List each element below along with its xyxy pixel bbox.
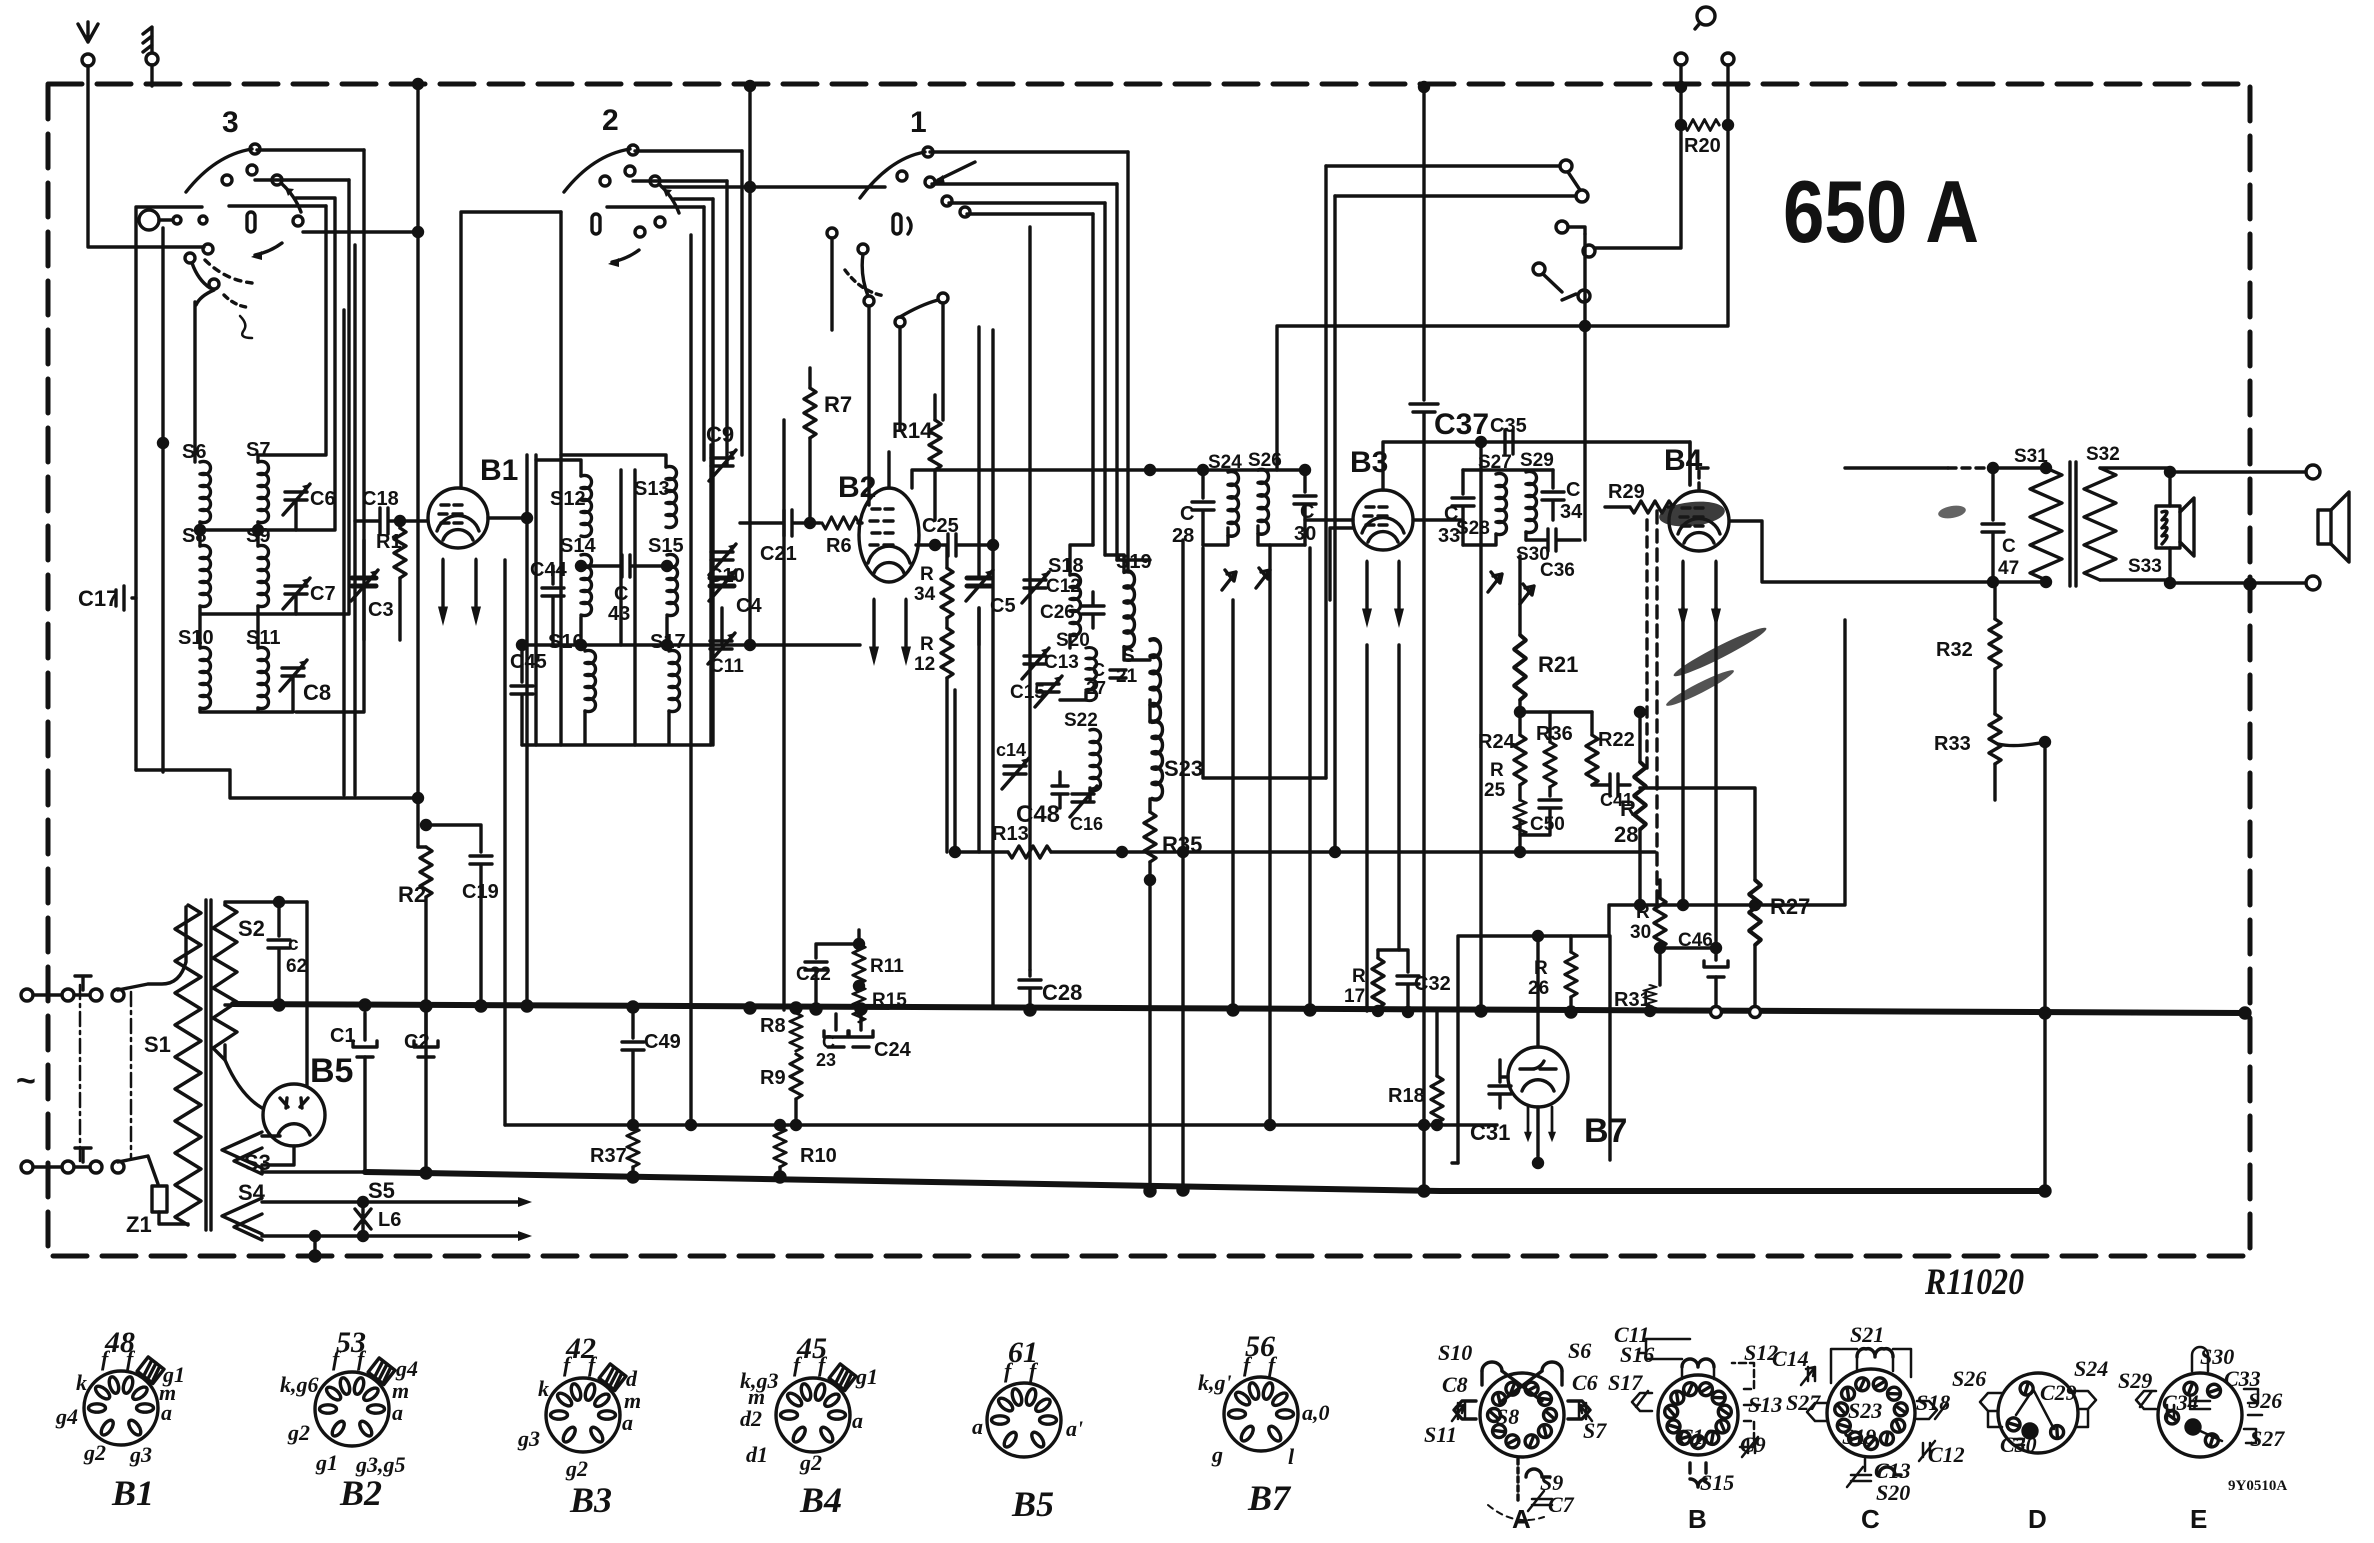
svg-text:k,g': k,g' [1198, 1370, 1232, 1395]
variable capacitor C5 [977, 608, 980, 645]
svg-text:S27: S27 [1786, 1390, 1821, 1415]
svg-text:C8: C8 [303, 680, 331, 705]
svg-text:S29: S29 [2118, 1368, 2152, 1393]
variable capacitor C3 [362, 540, 365, 576]
switch 1 contacts [923, 147, 933, 157]
svg-text:28: 28 [1614, 822, 1638, 847]
wire long vertical 355 [353, 245, 356, 795]
wire R row bottom [1520, 820, 1550, 852]
wire rail r1 [258, 206, 326, 462]
svg-text:S11: S11 [1424, 1422, 1457, 1447]
tube B3 filament arrows [1362, 562, 1372, 628]
node [254, 526, 263, 535]
wire mid 905 line [1609, 620, 1845, 936]
svg-text:S16: S16 [1620, 1342, 1654, 1367]
wire B3 left lower stub [1330, 528, 1353, 600]
svg-text:S10: S10 [178, 627, 214, 649]
speaker cone small [2180, 498, 2194, 556]
svg-text:12: 12 [914, 654, 935, 675]
svg-text:30: 30 [1630, 922, 1651, 943]
tube B2 [859, 488, 919, 582]
svg-text:34: 34 [914, 584, 936, 605]
wire B3 top line [1383, 442, 1690, 490]
terminal [2306, 465, 2320, 479]
wire long vertical 418 [416, 84, 419, 847]
socket diagram B [1632, 1339, 1760, 1487]
svg-text:S13: S13 [1748, 1392, 1782, 1417]
svg-text:g1: g1 [315, 1450, 338, 1475]
node heavy2 [421, 1168, 431, 1178]
switch 1b contacts [827, 228, 837, 238]
wire switch2 rails [607, 151, 742, 207]
svg-text:S33: S33 [2128, 556, 2162, 577]
svg-text:S21: S21 [1850, 1322, 1884, 1347]
wire row3 bottom [200, 676, 293, 712]
svg-text:3: 3 [222, 106, 239, 139]
svg-text:B3: B3 [569, 1480, 612, 1520]
svg-text:S20: S20 [1876, 1480, 1910, 1505]
switch 2 blade [660, 185, 679, 213]
transformer core [206, 900, 211, 1230]
svg-text:C21: C21 [760, 543, 797, 565]
wire block3 left rail bottom [161, 770, 164, 772]
svg-text:R14: R14 [892, 418, 933, 443]
tube B5 rectifier [263, 1084, 325, 1146]
core adjust arrows IF2 [1488, 572, 1502, 592]
svg-text:S24: S24 [2074, 1356, 2108, 1381]
svg-text:l: l [1288, 1444, 1295, 1469]
svg-text:B1: B1 [111, 1473, 154, 1513]
svg-text:21: 21 [1116, 666, 1138, 687]
svg-text:R8: R8 [760, 1015, 786, 1037]
svg-text:g2: g2 [799, 1450, 822, 1475]
switch 1 rails [930, 152, 1128, 214]
svg-text:C4: C4 [736, 595, 762, 617]
ink smudge [1658, 499, 1726, 530]
node [518, 641, 527, 650]
svg-text:C17: C17 [78, 586, 118, 611]
node [1516, 848, 1525, 857]
wire wave rail a [1324, 166, 1327, 778]
svg-text:C26: C26 [1040, 602, 1075, 623]
node j1 [159, 439, 168, 448]
svg-text:17: 17 [1344, 986, 1365, 1007]
svg-text:k: k [76, 1370, 87, 1395]
tube B1 filament arrows [438, 560, 448, 626]
node [2166, 579, 2175, 588]
mains terminals row2 [21, 1161, 33, 1173]
svg-text:S8: S8 [1496, 1404, 1519, 1429]
svg-text:S29: S29 [1520, 450, 1554, 471]
svg-text:R: R [1352, 966, 1366, 987]
node [1677, 83, 1686, 92]
trimmer C7 [285, 586, 307, 594]
svg-text:S26: S26 [2248, 1388, 2282, 1413]
svg-text:R9: R9 [760, 1067, 786, 1089]
microphone jack circle [139, 210, 159, 230]
node [1199, 466, 1208, 475]
capacitor C43 [581, 555, 667, 577]
wire wave blade vertical [1583, 234, 1586, 540]
wire wave row1 [1326, 164, 1560, 167]
wire vertical B3 right drop [1397, 645, 1400, 950]
trimmer C16 [1072, 794, 1094, 802]
wire wave contact stub [1568, 227, 1585, 234]
svg-text:R15: R15 [872, 990, 907, 1011]
node [1646, 1007, 1655, 1016]
node [1989, 464, 1998, 473]
svg-text:R11: R11 [870, 956, 904, 977]
svg-text:C36: C36 [1540, 560, 1575, 581]
switch blade row2 [118, 1156, 158, 1184]
svg-text:R10: R10 [800, 1145, 837, 1167]
wire secondary top [2100, 468, 2306, 472]
tube B4 filament arrows [1678, 562, 1688, 628]
node [577, 562, 586, 571]
svg-text:a': a' [1066, 1416, 1083, 1441]
svg-text:R6: R6 [826, 535, 852, 557]
node [1534, 932, 1543, 941]
svg-text:C14: C14 [1772, 1346, 1809, 1371]
switch 1 key slot [893, 214, 901, 234]
svg-text:a: a [852, 1408, 863, 1433]
svg-text:C8: C8 [1442, 1372, 1468, 1397]
svg-text:d1: d1 [746, 1442, 768, 1467]
svg-text:9Y0510A: 9Y0510A [2228, 1478, 2287, 1494]
socket diagram B3 [546, 1364, 626, 1452]
svg-text:S18: S18 [1916, 1390, 1950, 1415]
terminal circles on bus [1711, 1007, 1722, 1018]
trimmer C11 [710, 641, 732, 649]
svg-text:S11: S11 [246, 627, 280, 649]
svg-text:S17: S17 [650, 631, 686, 653]
svg-text:g2: g2 [83, 1440, 106, 1465]
svg-text:S10: S10 [1438, 1340, 1472, 1365]
node [1656, 944, 1665, 953]
svg-text:R: R [1636, 902, 1650, 923]
svg-text:R22: R22 [1598, 729, 1635, 751]
node [855, 940, 864, 949]
svg-text:R21: R21 [1538, 652, 1578, 677]
svg-text:E: E [2190, 1504, 2207, 1534]
svg-text:R20: R20 [1684, 135, 1721, 157]
svg-text:S15: S15 [648, 535, 684, 557]
socket diagram B4 [776, 1364, 856, 1452]
svg-text:a,0: a,0 [1302, 1400, 1330, 1425]
wire antenna down [88, 66, 204, 247]
svg-text:S32: S32 [2086, 444, 2120, 465]
wire B4 top stub [1699, 468, 1712, 490]
svg-text:2: 2 [602, 104, 619, 137]
switch 3 wafer arc [186, 149, 252, 192]
svg-text:B4: B4 [799, 1480, 842, 1520]
node [1146, 876, 1155, 885]
svg-text:650 A: 650 A [1783, 162, 1979, 261]
svg-text:a: a [392, 1400, 403, 1425]
trimmer C10 [711, 552, 733, 560]
wire vertical S19 drop [1181, 540, 1184, 1190]
svg-text:R: R [1620, 796, 1636, 821]
svg-text:~: ~ [16, 1062, 36, 1100]
svg-text:R33: R33 [1934, 733, 1971, 755]
node [1581, 322, 1590, 331]
wire R13 stub [953, 690, 956, 852]
svg-text:B5: B5 [310, 1052, 353, 1090]
node [414, 80, 423, 89]
svg-text:a: a [622, 1410, 633, 1435]
svg-text:a: a [972, 1414, 983, 1439]
socket diagram D [1980, 1373, 2096, 1453]
svg-text:R18: R18 [1388, 1085, 1425, 1107]
node [523, 514, 532, 523]
wire osc block bottom [522, 711, 711, 745]
svg-text:R: R [920, 564, 934, 585]
node [1534, 1159, 1543, 1168]
svg-text:k: k [538, 1376, 549, 1401]
tube B5 bottom lead [262, 1146, 294, 1165]
svg-text:C13: C13 [1044, 652, 1079, 673]
svg-text:R7: R7 [824, 392, 852, 417]
top right terminals [1697, 7, 1715, 25]
wire switch1b stubs [832, 238, 943, 490]
svg-text:k,g6: k,g6 [280, 1372, 319, 1397]
svg-text:C: C [1566, 479, 1580, 501]
svg-text:S16: S16 [548, 631, 584, 653]
wire S14 S15 bottoms [581, 617, 667, 645]
node [629, 1121, 638, 1130]
node [1420, 83, 1429, 92]
svg-text:g: g [1211, 1442, 1223, 1467]
svg-text:1: 1 [910, 106, 927, 139]
node [1516, 708, 1525, 717]
wire B4 filament drops [1683, 608, 1716, 944]
wire B1 grid feed [461, 212, 561, 488]
socket diagram E [2136, 1347, 2262, 1457]
wire B1 plate out [488, 516, 527, 519]
wire B4 plate to output [1730, 521, 2046, 582]
svg-text:25: 25 [1484, 780, 1506, 801]
svg-text:g3: g3 [517, 1426, 540, 1451]
svg-text:R: R [1534, 958, 1548, 979]
wire rail r3 [296, 180, 349, 614]
wire long vertical 344 [342, 310, 345, 795]
wire mic rail [161, 228, 164, 770]
wire into B2 grid [858, 521, 862, 524]
switch 1b blades [862, 254, 868, 296]
svg-text:C45: C45 [510, 651, 547, 673]
wire 1481 vertical [1479, 442, 1482, 1011]
svg-text:L6: L6 [378, 1209, 401, 1231]
svg-text:R32: R32 [1936, 639, 1973, 661]
svg-text:g4: g4 [395, 1356, 418, 1381]
svg-text:g4: g4 [55, 1404, 78, 1429]
wire coil block bottom [136, 770, 418, 798]
svg-text:C35: C35 [1490, 415, 1527, 437]
switch wave contacts [1560, 160, 1572, 172]
mains terminals row1 [21, 989, 33, 1001]
svg-text:C15: C15 [1010, 682, 1045, 703]
wire switch2 row [662, 185, 885, 188]
svg-text:d: d [626, 1366, 638, 1391]
svg-text:B4: B4 [1664, 444, 1703, 477]
speaker right [2318, 492, 2349, 562]
svg-text:S6: S6 [182, 441, 206, 463]
svg-text:c14: c14 [996, 740, 1026, 760]
svg-text:S9: S9 [246, 525, 270, 547]
svg-text:C: C [1092, 660, 1105, 680]
svg-text:g3,g5: g3,g5 [355, 1452, 406, 1477]
wire long vertical 691 [689, 235, 692, 1125]
trimmer C8 [282, 668, 304, 676]
svg-text:C7: C7 [310, 583, 336, 605]
socket diagram C [1801, 1349, 1947, 1487]
switch 2 wafer arc [564, 149, 630, 192]
trimmer C13 [1024, 656, 1046, 664]
svg-text:C7: C7 [1548, 1492, 1575, 1517]
trimmer C6 [285, 492, 307, 500]
wire C5 945 [977, 327, 980, 852]
node [1477, 438, 1486, 447]
svg-text:C12: C12 [1928, 1442, 1965, 1467]
wire s2 rail r3 [725, 181, 728, 465]
dashed schematic border [48, 84, 2250, 1256]
svg-text:R: R [920, 634, 934, 655]
svg-text:C31: C31 [1470, 1120, 1510, 1145]
svg-text:C29: C29 [2040, 1380, 2077, 1405]
svg-text:C49: C49 [644, 1031, 681, 1053]
node [396, 517, 405, 526]
wire row1 bottom [200, 500, 296, 546]
svg-text:R29: R29 [1608, 481, 1645, 503]
node [746, 82, 755, 91]
svg-text:C44: C44 [530, 559, 568, 581]
wire switch3 contact rails [229, 150, 364, 206]
svg-text:S17: S17 [1608, 1370, 1643, 1395]
svg-text:g3: g3 [129, 1442, 152, 1467]
node [931, 541, 940, 550]
wire to border [313, 1236, 316, 1256]
trimmer C14 [1004, 766, 1026, 774]
switch 3 blade lower [192, 263, 210, 288]
wire S2 tap to bus [225, 1003, 233, 1006]
wire IF2 frame [1463, 470, 1553, 545]
tube B7 filament arrows [1524, 1107, 1532, 1142]
dashed AVC line [1655, 511, 1658, 905]
wire s2 rail r1 [702, 207, 705, 460]
wire R20 right vertical [1277, 65, 1728, 470]
terminal [2306, 576, 2320, 590]
variable capacitor C4 [720, 608, 723, 645]
svg-text:27: 27 [1086, 678, 1106, 698]
svg-text:R36: R36 [1536, 723, 1573, 745]
wire R row top [1520, 710, 1592, 713]
svg-text:C6: C6 [310, 488, 336, 510]
svg-text:S2: S2 [238, 916, 265, 941]
wire tap vertical [2043, 742, 2046, 1191]
switch 2 rotor arrow [612, 250, 639, 262]
svg-text:C11: C11 [710, 656, 744, 677]
svg-text:C30: C30 [2000, 1432, 2037, 1457]
wire S3 leads [262, 1136, 365, 1172]
node [275, 898, 284, 907]
svg-text:B5: B5 [1011, 1484, 1054, 1524]
svg-text:m: m [392, 1378, 409, 1403]
switch 2 contacts [628, 145, 638, 155]
svg-text:S7: S7 [1583, 1418, 1607, 1443]
socket diagram B7 [1224, 1377, 1298, 1451]
svg-text:Z1: Z1 [126, 1212, 152, 1237]
node [422, 821, 431, 830]
svg-text:R11020: R11020 [1924, 1262, 2024, 1303]
svg-text:23: 23 [816, 1050, 836, 1070]
svg-text:C10: C10 [1678, 1424, 1715, 1449]
socket diagram B5 [987, 1383, 1061, 1457]
wire B2 top stub [887, 452, 890, 488]
svg-text:S23: S23 [1848, 1398, 1882, 1423]
tube B4 [1669, 491, 1729, 551]
wire switch3 to bus vertical [303, 230, 418, 233]
node [310, 1251, 320, 1261]
node [1636, 901, 1645, 910]
svg-text:S19: S19 [1842, 1424, 1876, 1449]
node [951, 848, 960, 857]
switch 1 blade arrow [938, 162, 975, 180]
trimmer C15 [1037, 684, 1059, 692]
wire R20 left vertical [1594, 65, 1681, 248]
wire IF1 to B3 [1305, 518, 1353, 521]
wire IF1 frame [1203, 470, 1305, 545]
svg-text:g1: g1 [855, 1364, 878, 1389]
wire misc verticals center [784, 330, 1690, 1011]
socket diagram B2 [315, 1358, 395, 1446]
switch 2 key slot [592, 214, 600, 234]
switch 3 contacts [250, 144, 260, 154]
antenna [78, 22, 98, 66]
svg-text:C: C [614, 583, 628, 605]
svg-text:C6: C6 [1572, 1370, 1598, 1395]
svg-text:R24: R24 [1478, 731, 1516, 753]
svg-text:B7: B7 [1247, 1478, 1292, 1518]
svg-text:C: C [1861, 1504, 1880, 1534]
svg-text:C: C [1180, 503, 1194, 525]
svg-text:S5: S5 [368, 1178, 395, 1203]
socket diagram B1 [84, 1357, 164, 1445]
wire B7 box [1458, 936, 1610, 1163]
svg-text:C28: C28 [1042, 980, 1082, 1005]
svg-text:47: 47 [1998, 558, 2019, 579]
wire IF1 below frame [1203, 548, 1326, 778]
node [359, 1198, 368, 1207]
wire s1 rail verticals [1093, 152, 1128, 572]
node [2166, 468, 2175, 477]
earth terminal [143, 27, 158, 86]
svg-text:g2: g2 [565, 1456, 588, 1481]
svg-text:B: B [1688, 1504, 1707, 1534]
wire mic block rect [136, 207, 202, 770]
svg-text:C24: C24 [874, 1039, 912, 1061]
svg-text:f: f [1268, 1352, 1278, 1377]
svg-text:S27: S27 [2250, 1426, 2285, 1451]
wire thin bus left stub [503, 560, 506, 1125]
svg-text:C3: C3 [368, 599, 394, 621]
svg-text:43: 43 [608, 603, 630, 625]
wire rail r2 [296, 199, 335, 530]
wire s2 rail r4 [740, 151, 743, 455]
svg-text:R37: R37 [590, 1145, 627, 1167]
svg-text:C9: C9 [1740, 1432, 1766, 1457]
switch wave blades [1543, 172, 1580, 300]
svg-text:D: D [2028, 1504, 2047, 1534]
